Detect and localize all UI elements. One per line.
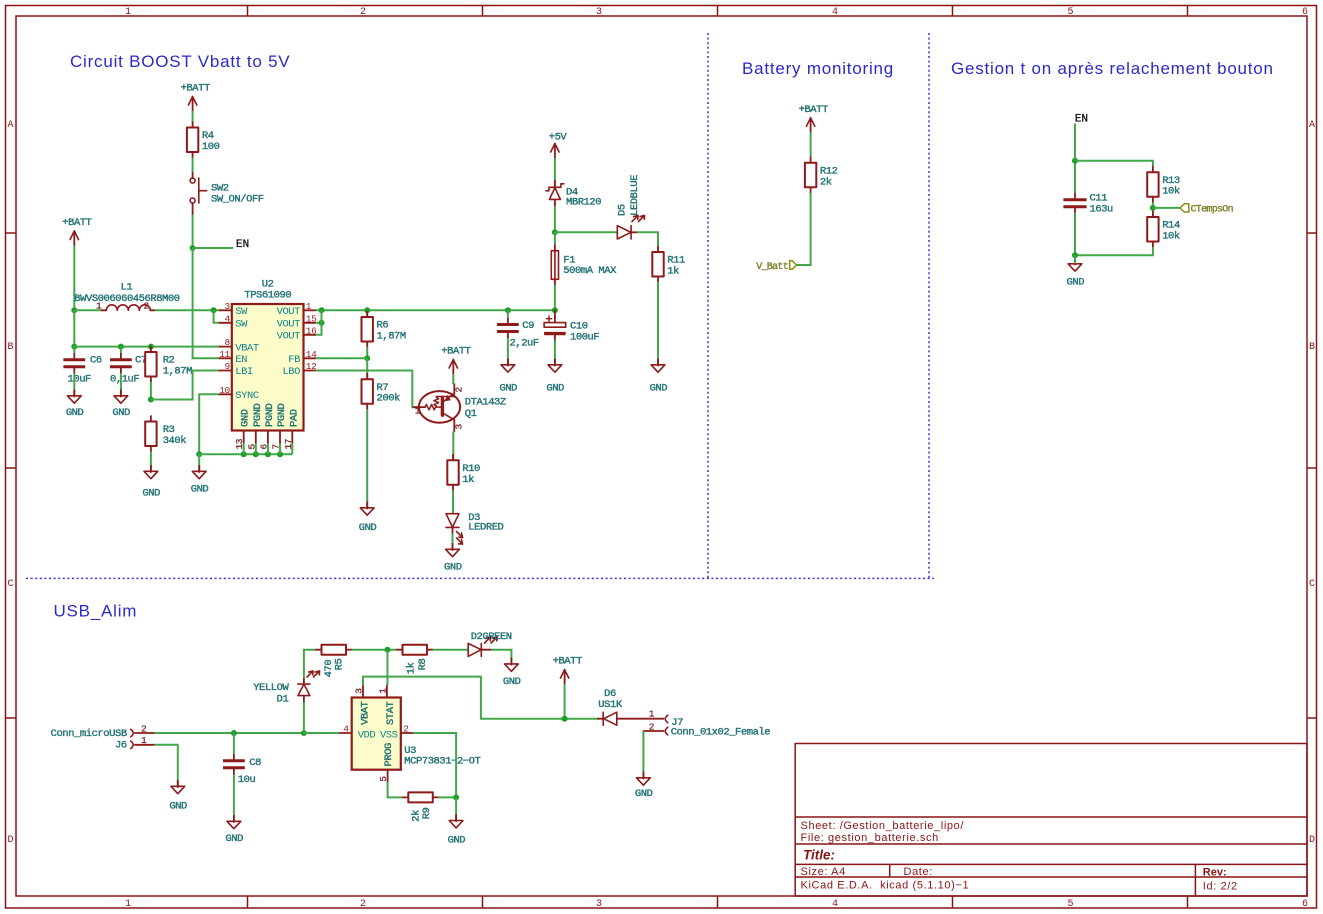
- wire: [554, 206, 556, 232]
- svg-text:LEDRED: LEDRED: [468, 522, 503, 534]
- svg-text:1: 1: [141, 735, 147, 746]
- resistor R13: [1147, 167, 1180, 203]
- junction ground bus pin: [241, 451, 247, 457]
- U2 pin names bottom (vertical): [240, 403, 301, 427]
- svg-text:MCP73831−2−OT: MCP73831−2−OT: [404, 755, 480, 767]
- op-amp U1 IC U2 TPS61090 body: [232, 278, 304, 430]
- svg-text:163u: 163u: [1090, 203, 1114, 215]
- svg-text:200k: 200k: [377, 393, 401, 405]
- svg-text:Gestion t on après relachement: Gestion t on après relachement bouton: [951, 59, 1274, 78]
- resistor R12: [805, 157, 838, 193]
- svg-text:TPS61090: TPS61090: [244, 290, 291, 302]
- capacitor C9: [497, 319, 519, 339]
- svg-text:340k: 340k: [163, 435, 187, 447]
- wire to VDD pin 4: [304, 732, 340, 734]
- resistor R11: [652, 247, 685, 283]
- ground (D2): [503, 658, 521, 688]
- svg-text:EN: EN: [1075, 113, 1088, 125]
- U2 pin stubs left: [220, 310, 232, 394]
- wire: [452, 374, 454, 385]
- wire: [366, 409, 368, 507]
- wire D1 to R5: [304, 650, 316, 678]
- svg-text:100uF: 100uF: [570, 332, 599, 344]
- svg-text:Q1: Q1: [465, 408, 477, 420]
- capacitor C10 (polarized): [544, 310, 599, 343]
- ground (C10): [546, 359, 564, 394]
- svg-text:Rev:: Rev:: [1203, 866, 1227, 878]
- svg-text:1: 1: [125, 7, 131, 18]
- svg-text:5: 5: [1067, 899, 1073, 910]
- partition dashed line vertical 1: [707, 33, 709, 578]
- svg-text:GND: GND: [142, 487, 160, 499]
- svg-text:5: 5: [1067, 7, 1073, 18]
- resistor R3: [145, 416, 186, 452]
- svg-text:4: 4: [832, 7, 838, 18]
- svg-text:500mA MAX: 500mA MAX: [563, 265, 617, 277]
- svg-text:File: gestion_batterie.sch: File: gestion_batterie.sch: [801, 832, 939, 844]
- wire R12 to V_Batt: [797, 193, 811, 265]
- wire to L1: [74, 309, 102, 311]
- wire ground bus: [199, 453, 292, 455]
- junction R2: [148, 344, 154, 350]
- wire VOUT pin15: [316, 322, 322, 324]
- svg-text:EN: EN: [235, 354, 247, 366]
- svg-text:C8: C8: [249, 757, 261, 769]
- svg-text:GND: GND: [225, 833, 243, 845]
- svg-text:6: 6: [258, 444, 269, 450]
- wire: [192, 215, 194, 249]
- svg-text:10: 10: [219, 385, 230, 396]
- svg-text:GND: GND: [359, 522, 377, 534]
- svg-text:VOUT: VOUT: [277, 319, 301, 331]
- resistor R4: [187, 122, 220, 158]
- ground (R7): [359, 502, 377, 534]
- junction VOUT pin 1: [319, 307, 325, 313]
- wire D5 to R11: [637, 232, 658, 246]
- wire to CTempsOn: [1153, 207, 1180, 209]
- wire: [150, 452, 152, 471]
- svg-text:VOUT: VOUT: [277, 306, 301, 318]
- junction C11 top: [1072, 158, 1078, 164]
- svg-text:1: 1: [649, 709, 655, 720]
- wire: [192, 111, 194, 123]
- svg-text:Conn_01x02_Female: Conn_01x02_Female: [671, 726, 771, 738]
- svg-text:GND: GND: [650, 383, 668, 395]
- wire: [452, 432, 454, 461]
- junction EN node: [190, 245, 196, 251]
- svg-text:SYNC: SYNC: [235, 390, 259, 402]
- hierarchical label V_Batt: [756, 261, 796, 273]
- svg-text:DTA143Z: DTA143Z: [465, 397, 506, 409]
- svg-text:0,1uF: 0,1uF: [110, 373, 139, 385]
- svg-text:Battery monitoring: Battery monitoring: [742, 59, 894, 78]
- transistor Q1 DTA143Z: [414, 384, 506, 432]
- wire: [73, 347, 75, 354]
- wire +BATT down: [73, 310, 75, 346]
- power +BATT (R4 branch): [181, 83, 210, 112]
- wire U2 ground pin drops: [243, 443, 245, 455]
- svg-text:3: 3: [454, 424, 465, 430]
- partition dashed line horizontal: [26, 577, 934, 579]
- wire: [1074, 255, 1076, 263]
- wire: [507, 310, 509, 318]
- svg-text:+BATT: +BATT: [181, 83, 210, 95]
- svg-text:Conn_microUSB: Conn_microUSB: [51, 728, 127, 740]
- svg-text:2k: 2k: [820, 176, 832, 188]
- wire: [192, 158, 194, 174]
- ground (C11): [1067, 258, 1085, 288]
- wire: [438, 796, 456, 798]
- svg-text:VSS: VSS: [380, 730, 398, 742]
- ground (U3): [448, 815, 466, 846]
- svg-text:R9: R9: [421, 808, 433, 820]
- ground (U2): [191, 466, 209, 496]
- svg-text:2: 2: [360, 7, 366, 18]
- ground (D3): [444, 544, 462, 574]
- svg-text:EN: EN: [236, 239, 249, 251]
- svg-text:US1K: US1K: [598, 699, 623, 711]
- svg-text:Size: A4: Size: A4: [801, 866, 846, 878]
- U3 pin numbers: [343, 688, 409, 782]
- svg-text:+BATT: +BATT: [441, 346, 470, 358]
- power +5V: [549, 132, 568, 159]
- svg-text:LBO: LBO: [282, 366, 300, 378]
- wire VBAT row: [74, 346, 219, 348]
- ground (J6): [169, 781, 187, 813]
- svg-text:BWVS006060456R8M00: BWVS006060456R8M00: [74, 293, 179, 305]
- wire to R13: [1075, 161, 1153, 167]
- svg-text:L1: L1: [121, 282, 133, 294]
- svg-text:11: 11: [219, 349, 230, 360]
- hierarchical label CTempsOn: [1180, 204, 1234, 216]
- svg-text:GND: GND: [499, 383, 517, 395]
- wire to EN label: [193, 247, 233, 249]
- svg-text:LBI: LBI: [235, 366, 253, 378]
- wire VOUT rail: [316, 309, 555, 311]
- svg-text:100: 100: [202, 141, 220, 153]
- wire SYNC to ground bus: [199, 394, 219, 454]
- svg-text:Circuit BOOST Vbatt to 5V: Circuit BOOST Vbatt to 5V: [70, 52, 290, 71]
- svg-text:16: 16: [306, 325, 317, 336]
- svg-text:+5V: +5V: [549, 132, 568, 144]
- svg-text:1k: 1k: [406, 662, 418, 674]
- svg-text:GND: GND: [448, 834, 466, 846]
- resistor R5: [316, 645, 352, 655]
- capacitor C11: [1063, 194, 1086, 214]
- diode D4 MBR120 (schottky): [546, 181, 601, 209]
- diode D6 US1K: [598, 688, 664, 725]
- svg-text:B: B: [1309, 342, 1315, 353]
- wire: [73, 246, 75, 312]
- resistor R2: [145, 347, 192, 383]
- junction R9/VSS: [453, 794, 459, 800]
- svg-text:R5: R5: [334, 659, 346, 671]
- wire L1 to U2 SW: [155, 309, 220, 311]
- LED D1 YELLOW: [253, 666, 321, 705]
- svg-text:D: D: [7, 835, 13, 846]
- junction R6 top: [364, 307, 370, 313]
- U2 pin stubs right: [304, 310, 316, 370]
- svg-text:7: 7: [271, 444, 282, 449]
- svg-text:Sheet: /Gestion_batterie_lipo/: Sheet: /Gestion_batterie_lipo/: [801, 820, 965, 832]
- wire to U2 pin 4: [214, 310, 220, 323]
- wire to D5: [555, 231, 617, 233]
- junction VOUT/C10: [552, 307, 558, 313]
- wire: [554, 285, 556, 310]
- wire C11 bottom: [1074, 213, 1076, 255]
- svg-text:SW: SW: [235, 319, 248, 331]
- svg-text:1k: 1k: [462, 474, 474, 486]
- svg-text:+BATT: +BATT: [62, 217, 91, 229]
- wire: [150, 382, 152, 400]
- svg-text:MBR120: MBR120: [566, 197, 601, 209]
- svg-text:10uF: 10uF: [68, 373, 92, 385]
- svg-text:Title:: Title:: [803, 847, 835, 862]
- junction CTempsOn: [1150, 205, 1156, 211]
- LED D2 D2GREEN: [468, 631, 512, 656]
- resistor R14: [1147, 212, 1180, 248]
- svg-text:VBAT: VBAT: [360, 701, 372, 725]
- wire: [366, 310, 368, 317]
- svg-text:12: 12: [306, 361, 317, 372]
- svg-text:PGND: PGND: [252, 403, 264, 427]
- U2 pin stubs bottom: [244, 431, 293, 443]
- svg-text:PGND: PGND: [276, 403, 288, 427]
- power +BATT (input): [62, 217, 91, 246]
- svg-text:CTempsOn: CTempsOn: [1191, 204, 1234, 215]
- junction C11 bottom: [1072, 252, 1078, 258]
- svg-text:5: 5: [246, 444, 257, 450]
- svg-text:KiCad E.D.A. kicad (5.1.10)−1: KiCad E.D.A. kicad (5.1.10)−1: [801, 880, 970, 892]
- connector J7 Conn_01x02_Female: [643, 709, 770, 739]
- svg-text:A: A: [7, 120, 13, 131]
- svg-text:17: 17: [283, 439, 294, 450]
- svg-text:GND: GND: [635, 788, 653, 800]
- junction R2/R3/LBI: [148, 397, 154, 403]
- wire: [366, 347, 368, 358]
- svg-text:STAT: STAT: [385, 701, 397, 725]
- junction ground bus pin: [265, 451, 271, 457]
- wire FB: [316, 357, 367, 359]
- svg-text:Id: 2/2: Id: 2/2: [1203, 880, 1238, 892]
- switch SW2: [190, 173, 264, 215]
- svg-text:GND: GND: [191, 484, 209, 496]
- wire: [1152, 202, 1154, 211]
- title block: [795, 744, 1307, 897]
- fuse F1: [551, 245, 617, 286]
- title block text: [801, 820, 1238, 893]
- junction ground bus: [196, 451, 202, 457]
- svg-text:V_Batt: V_Batt: [756, 262, 788, 273]
- resistor R9: [403, 792, 439, 802]
- power +BATT (charge out): [553, 656, 582, 685]
- U2 pin numbers: [219, 301, 317, 450]
- wire: [452, 490, 454, 513]
- svg-text:3: 3: [596, 899, 602, 910]
- junction ground bus pin: [253, 451, 259, 457]
- svg-text:1: 1: [125, 899, 131, 910]
- junction ground bus pin: [277, 451, 283, 457]
- resistor R6: [362, 312, 406, 348]
- junction C8: [231, 730, 237, 736]
- connector J6 Conn_microUSB: [51, 723, 155, 751]
- svg-text:GND: GND: [503, 676, 521, 688]
- svg-text:+BATT: +BATT: [553, 656, 582, 668]
- junction C7: [118, 344, 124, 350]
- svg-text:6: 6: [1302, 7, 1308, 18]
- junction L1 left: [71, 307, 77, 313]
- ground (C6): [66, 390, 84, 419]
- svg-text:D: D: [1309, 835, 1315, 846]
- wire EN to U2 pin 11: [193, 248, 220, 358]
- svg-text:C9: C9: [522, 320, 534, 332]
- capacitor C6: [63, 354, 85, 374]
- svg-text:1: 1: [306, 301, 312, 312]
- svg-text:FB: FB: [288, 354, 300, 366]
- svg-text:YELLOW: YELLOW: [253, 682, 289, 694]
- svg-text:D1: D1: [277, 693, 289, 705]
- inductor L1: [74, 282, 179, 312]
- U2 pin names: [235, 306, 300, 402]
- wire R5 to R8: [352, 649, 398, 651]
- svg-text:SW: SW: [235, 306, 248, 318]
- partition dashed line vertical 2: [928, 33, 930, 578]
- wire D1 to VDD net: [303, 702, 305, 733]
- svg-text:C6: C6: [90, 354, 102, 366]
- wire: [198, 454, 200, 471]
- svg-text:10k: 10k: [1162, 231, 1180, 243]
- ground (C7): [112, 390, 130, 419]
- svg-text:+BATT: +BATT: [799, 104, 828, 116]
- wire: [455, 797, 457, 820]
- svg-text:14: 14: [306, 349, 317, 360]
- ground (C8): [225, 816, 243, 845]
- svg-text:USB_Alim: USB_Alim: [54, 602, 138, 621]
- svg-text:VDD: VDD: [358, 730, 376, 742]
- junction SW pins: [211, 307, 217, 313]
- wire STAT to rail: [387, 650, 389, 686]
- ground (R11): [650, 359, 668, 394]
- svg-text:2: 2: [360, 899, 366, 910]
- svg-text:GND: GND: [112, 407, 130, 419]
- svg-text:13: 13: [234, 438, 245, 449]
- wire: [233, 733, 235, 755]
- wire: [507, 338, 509, 364]
- wire LBI net: [151, 371, 220, 400]
- svg-text:GND: GND: [444, 562, 462, 574]
- wire: [564, 684, 566, 719]
- wire: [452, 534, 454, 549]
- wire R14 bottom: [1075, 247, 1153, 255]
- svg-text:C: C: [1309, 579, 1315, 590]
- svg-text:9: 9: [224, 361, 230, 372]
- svg-text:3: 3: [596, 7, 602, 18]
- resistor R7: [362, 374, 401, 410]
- LED D3 LEDRED: [446, 512, 504, 546]
- svg-text:J6: J6: [115, 740, 127, 752]
- wire USB V+: [154, 732, 304, 734]
- wire: [554, 232, 556, 244]
- svg-text:GND: GND: [1067, 276, 1085, 288]
- svg-text:4: 4: [832, 899, 838, 910]
- capacitor C8: [223, 755, 245, 775]
- svg-text:1,87M: 1,87M: [377, 331, 406, 343]
- wire: [73, 373, 75, 395]
- junction VBAT/STAT rail: [385, 647, 391, 653]
- svg-text:6: 6: [1302, 899, 1308, 910]
- svg-text:SW2: SW2: [211, 182, 229, 194]
- svg-text:B: B: [7, 342, 13, 353]
- U3 pin stubs: [339, 685, 413, 782]
- junction C6: [71, 344, 77, 350]
- svg-text:U2: U2: [262, 278, 274, 290]
- svg-text:A: A: [1309, 120, 1315, 131]
- svg-text:R8: R8: [417, 659, 429, 671]
- svg-text:VOUT: VOUT: [277, 331, 301, 343]
- wire VSS down: [413, 733, 456, 797]
- IC U3 MCP73831 body: [352, 698, 481, 770]
- wire: [554, 158, 556, 181]
- wire VBAT to battery: [363, 677, 598, 719]
- svg-text:D2GREEN: D2GREEN: [471, 631, 512, 643]
- svg-text:4: 4: [224, 313, 230, 324]
- svg-text:SW_ON/OFF: SW_ON/OFF: [211, 194, 264, 206]
- resistor R8: [397, 645, 433, 655]
- power +BATT (R12): [799, 104, 828, 133]
- capacitor C7: [110, 354, 132, 374]
- svg-text:PGND: PGND: [264, 403, 276, 427]
- svg-text:GND: GND: [169, 800, 187, 812]
- svg-text:3: 3: [224, 301, 230, 312]
- wire EN vertical: [1074, 124, 1076, 194]
- wire LBO to Q1: [316, 371, 419, 408]
- svg-text:8: 8: [224, 337, 230, 348]
- svg-text:1,87M: 1,87M: [163, 366, 192, 378]
- wire J7 pin2 to gnd: [642, 731, 644, 777]
- svg-text:VBAT: VBAT: [235, 342, 259, 354]
- ground (J7): [635, 772, 653, 800]
- wire: [657, 282, 659, 364]
- svg-text:GND: GND: [240, 409, 252, 427]
- svg-text:1: 1: [415, 405, 421, 416]
- svg-text:1k: 1k: [667, 266, 679, 278]
- resistor R10: [447, 455, 480, 491]
- U3 pin names: [358, 701, 398, 766]
- svg-text:2: 2: [141, 723, 147, 734]
- wire VOUT pin16 tie: [316, 310, 322, 335]
- svg-text:15: 15: [306, 313, 317, 324]
- wire: [810, 132, 812, 157]
- wire: [366, 358, 368, 379]
- svg-text:10u: 10u: [238, 774, 256, 786]
- svg-text:10k: 10k: [1162, 186, 1180, 198]
- ground (R3): [142, 466, 160, 500]
- wire: [120, 373, 122, 395]
- svg-text:LEDBLUE: LEDBLUE: [629, 175, 641, 216]
- junction D1: [301, 730, 307, 736]
- svg-text:2,2uF: 2,2uF: [510, 338, 539, 350]
- wire USB gnd: [154, 745, 178, 786]
- junction VOUT pin 15: [319, 320, 325, 326]
- junction +BATT/D6: [562, 716, 568, 722]
- wire: [233, 774, 235, 821]
- wire: [554, 341, 556, 365]
- junction D4/F1/D5: [552, 229, 558, 235]
- svg-text:GND: GND: [66, 407, 84, 419]
- junction FB: [364, 355, 370, 361]
- wire D2 to gnd: [491, 650, 511, 664]
- svg-text:C: C: [7, 579, 13, 590]
